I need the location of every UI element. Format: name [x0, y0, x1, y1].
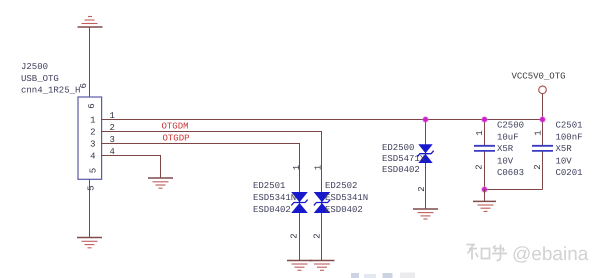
svg-text:ESD0402: ESD0402 — [325, 205, 363, 215]
junction dot at ED2500/VBUS — [422, 116, 429, 123]
svg-text:J2500: J2500 — [21, 62, 48, 72]
svg-text:ESD5471X: ESD5471X — [382, 154, 426, 164]
wire VCC drop — [542, 94, 544, 120]
wire VBUS to C2500 top — [484, 120, 486, 146]
svg-text:C2500: C2500 — [497, 120, 524, 130]
svg-text:1: 1 — [292, 165, 302, 170]
svg-text:3: 3 — [90, 140, 95, 150]
svg-text:6: 6 — [79, 83, 89, 88]
wire VBUS pin1 net — [102, 119, 543, 121]
wire OTGDP pin3 net — [102, 144, 300, 261]
svg-text:ED2502: ED2502 — [325, 181, 357, 191]
svg-text:C0603: C0603 — [497, 168, 524, 178]
svg-text:2: 2 — [417, 186, 427, 191]
svg-text:1: 1 — [533, 130, 543, 135]
svg-text:10uF: 10uF — [497, 132, 519, 142]
svg-text:1: 1 — [475, 130, 485, 135]
ground GND pin5 bottom-left — [77, 238, 102, 248]
ground GND top-left (flipped, bars shrink upward) — [78, 17, 103, 28]
power symbol VCC5V0_OTG — [539, 86, 547, 94]
svg-text:2: 2 — [475, 164, 485, 169]
svg-text:C0201: C0201 — [556, 168, 583, 178]
svg-text:1: 1 — [90, 116, 95, 126]
ground GND pin4 — [148, 178, 173, 188]
svg-text:2: 2 — [533, 164, 543, 169]
svg-text:USB_OTG: USB_OTG — [21, 74, 59, 84]
svg-text:2: 2 — [290, 233, 300, 238]
svg-text:VCC5V0_OTG: VCC5V0_OTG — [512, 72, 566, 82]
svg-text:ED2501: ED2501 — [253, 181, 285, 191]
bottom edge text fragment artifact — [351, 273, 415, 278]
svg-text:X5R: X5R — [497, 144, 514, 154]
watermark 知乎 @ebaina — [467, 245, 508, 261]
svg-text:10V: 10V — [556, 156, 573, 166]
svg-text:ESD0402: ESD0402 — [382, 165, 420, 175]
wire VBUS to ED2500 to ground — [425, 120, 427, 210]
capacitor C2500 — [474, 146, 495, 151]
junction dot at VCC corner — [539, 116, 546, 123]
TVS diode ED2500 (on VBUS) — [418, 144, 432, 163]
connector J2500 box — [78, 97, 102, 179]
svg-text:10V: 10V — [497, 156, 514, 166]
svg-text:6: 6 — [87, 103, 97, 108]
svg-text:OTGDP: OTGDP — [163, 133, 190, 143]
capacitor C2501 — [532, 146, 553, 151]
svg-text:ESD5341N: ESD5341N — [325, 193, 368, 203]
TVS diode ED2502 (bidirectional, on OTGDM) — [314, 192, 331, 213]
svg-text:ED2500: ED2500 — [382, 143, 414, 153]
junction dot at C2500/VBUS — [481, 116, 488, 123]
svg-text:X5R: X5R — [556, 144, 573, 154]
wire pin4 to ground — [102, 156, 161, 179]
ground GND under ED2500 — [413, 209, 438, 219]
svg-text:1: 1 — [314, 165, 324, 170]
ground GND under ED2502 — [310, 261, 335, 271]
svg-text:5: 5 — [89, 168, 99, 173]
junction dot at C2500 bottom — [481, 186, 488, 193]
wire C2500 bottom — [484, 151, 486, 189]
svg-text:ESD5341N: ESD5341N — [253, 193, 296, 203]
svg-text:4: 4 — [90, 152, 95, 162]
wire pin6 to connector top — [89, 27, 91, 97]
wire C2501 bottom — [542, 151, 544, 189]
ground GND under ED2501 — [287, 261, 312, 271]
ground GND under C2500 — [473, 201, 496, 211]
svg-text:@ebaina: @ebaina — [512, 244, 589, 265]
svg-text:ESD0402: ESD0402 — [253, 205, 291, 215]
svg-text:5: 5 — [86, 185, 96, 190]
wire stub to ground — [484, 190, 486, 202]
svg-text:C2501: C2501 — [556, 120, 583, 130]
wire VCC to C2501 top — [542, 120, 544, 146]
svg-text:2: 2 — [90, 128, 95, 138]
wire pin5 to ground — [89, 179, 91, 237]
TVS diode ED2501 (bidirectional, on OTGDP) — [291, 192, 308, 213]
svg-text:OTGDM: OTGDM — [162, 122, 189, 132]
svg-text:cnn4_1R25_H: cnn4_1R25_H — [21, 86, 80, 96]
svg-text:100nF: 100nF — [556, 132, 583, 142]
wire caps bottom rail — [485, 189, 543, 191]
svg-text:2: 2 — [312, 233, 322, 238]
wire OTGDM pin2 net — [102, 132, 322, 261]
